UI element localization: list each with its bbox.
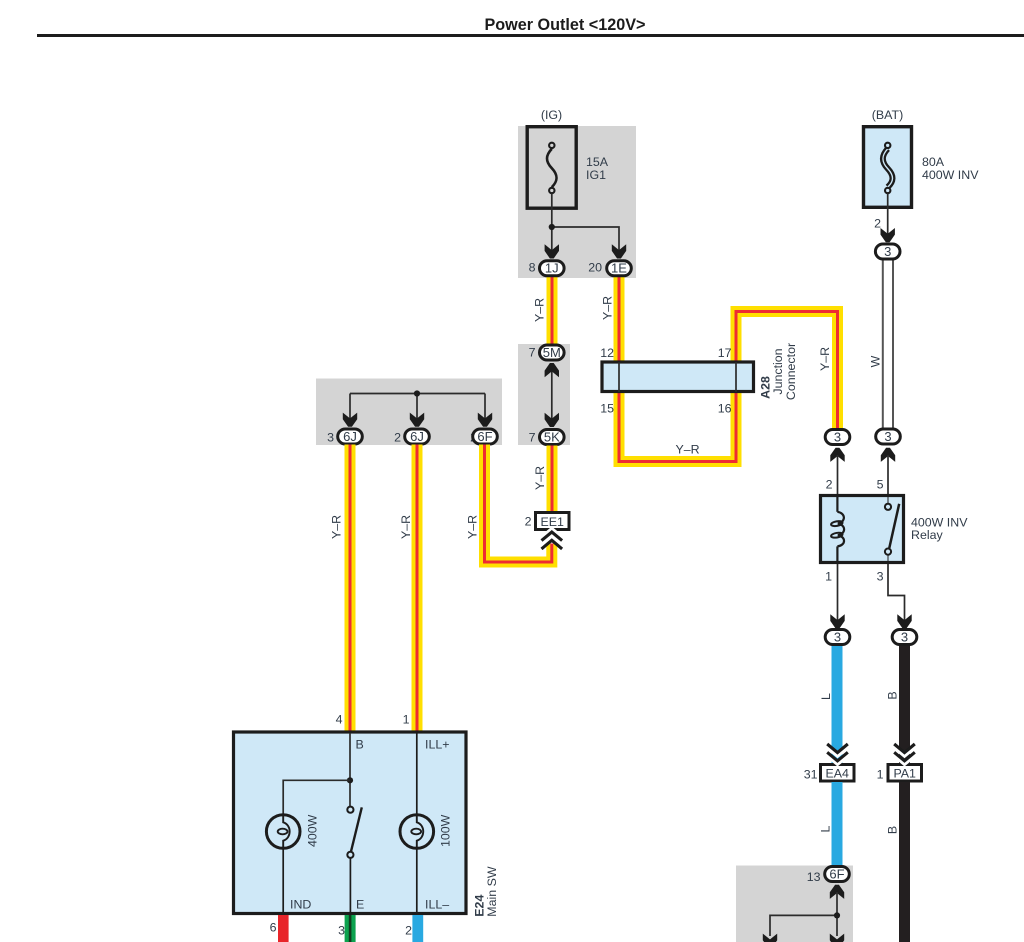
svg-text:7: 7	[529, 431, 536, 445]
connector 3 (lower left)	[825, 630, 850, 645]
svg-text:3: 3	[884, 244, 891, 259]
wire lead branch to lamp 400W	[283, 780, 350, 815]
svg-text:2: 2	[874, 217, 881, 231]
svg-text:1J: 1J	[545, 261, 559, 276]
node junction dot in 6J shield	[414, 390, 420, 396]
connector 6F	[473, 429, 498, 444]
wire R (red) from IND	[278, 915, 289, 942]
svg-text:12: 12	[600, 346, 614, 360]
connector 1J	[540, 261, 565, 276]
svg-text:2: 2	[405, 924, 412, 938]
svg-text:Y–R: Y–R	[533, 298, 547, 322]
chevrons above PA1 (down)	[894, 744, 915, 764]
svg-text:15: 15	[600, 402, 614, 416]
wire Y-R from 6J left to E24 pin 4	[345, 445, 356, 731]
fuse 15A IG1 element	[547, 143, 557, 194]
svg-text:400W: 400W	[306, 814, 320, 847]
wire Y-R horizontal line in 6J shield	[350, 394, 485, 421]
svg-text:W: W	[869, 355, 883, 367]
svg-text:EA4: EA4	[825, 767, 849, 781]
junction connector A28	[602, 362, 754, 392]
svg-text:2: 2	[826, 478, 833, 492]
connector 6F (bottom)	[825, 867, 850, 882]
wire lead 3 to relay pin 5	[887, 455, 889, 494]
svg-text:6J: 6J	[343, 429, 357, 444]
chevrons below EE1 (up)	[542, 529, 563, 546]
svg-text:8: 8	[529, 261, 536, 275]
component E24 Main SW box	[234, 732, 467, 914]
wire W (white) from 3 to relay 3	[882, 260, 894, 429]
svg-text:3: 3	[327, 431, 334, 445]
connector 6J left	[338, 429, 363, 444]
connector 1E	[607, 261, 632, 276]
connector EA4	[821, 765, 855, 782]
relay coil	[831, 494, 844, 564]
wire Y-R from A28 pin 17 to relay column	[736, 312, 838, 429]
node junction dot below IG fuse	[549, 224, 555, 230]
svg-text:17: 17	[718, 346, 732, 360]
svg-text:B: B	[886, 826, 900, 834]
svg-text:Main SW: Main SW	[485, 866, 499, 917]
arrow into 3 (BAT)	[881, 228, 895, 242]
fuse 15A IG1 box	[527, 127, 576, 209]
arrow into 5M (up)	[545, 363, 559, 377]
svg-text:ILL+: ILL+	[425, 738, 449, 752]
arrow down (left branch, clipped)	[763, 934, 777, 942]
svg-text:16: 16	[718, 402, 732, 416]
node junction dot (6F branch)	[834, 912, 840, 918]
svg-text:3: 3	[834, 629, 841, 644]
arrow into 3 (relay switch feed, up)	[881, 448, 895, 462]
switch E24	[347, 807, 362, 913]
lamp 100W	[400, 733, 434, 913]
svg-text:3: 3	[884, 429, 891, 444]
wire L (blue) from ILL-	[412, 915, 423, 942]
svg-text:3: 3	[877, 570, 884, 584]
wire lead fuse to junction	[552, 194, 619, 253]
svg-text:Power Outlet <120V>: Power Outlet <120V>	[484, 16, 645, 34]
svg-text:Y–R: Y–R	[399, 515, 413, 539]
svg-text:EE1: EE1	[540, 515, 564, 529]
svg-text:5K: 5K	[544, 429, 560, 444]
lamp 400W	[266, 815, 300, 913]
wire Y-R loop pins 15-16 of A28	[619, 392, 736, 462]
connector 3 below BAT fuse	[875, 244, 900, 259]
wire B (black) from 3 to PA1	[899, 645, 910, 764]
connector 6J middle	[405, 429, 430, 444]
svg-text:B: B	[356, 738, 364, 752]
svg-text:6: 6	[270, 921, 277, 935]
svg-text:400W INV: 400W INV	[922, 168, 979, 182]
svg-text:3: 3	[901, 629, 908, 644]
connector EE1	[536, 513, 570, 530]
relay switch	[885, 494, 899, 564]
wire lead fuse to arrow	[887, 194, 889, 237]
svg-text:Y–R: Y–R	[533, 466, 547, 490]
arrow into 6F	[478, 413, 492, 427]
node junction dot (B branch)	[347, 777, 353, 783]
svg-text:3: 3	[338, 924, 345, 938]
svg-text:L: L	[818, 825, 832, 832]
shield: 5M/5K connector area	[518, 344, 570, 445]
arrow into 5K (down)	[545, 413, 559, 427]
title rule	[37, 34, 1024, 37]
svg-text:3: 3	[834, 429, 841, 444]
svg-text:6F: 6F	[829, 866, 844, 881]
arrow into lower 3 (right)	[897, 614, 911, 628]
svg-text:5M: 5M	[543, 345, 561, 360]
connector 5M	[540, 345, 565, 360]
wire lead B to switch	[349, 733, 351, 807]
svg-text:PA1: PA1	[893, 767, 916, 781]
svg-text:1E: 1E	[611, 261, 627, 276]
svg-text:Y–R: Y–R	[818, 347, 832, 371]
svg-text:6F: 6F	[477, 429, 492, 444]
svg-text:80A: 80A	[922, 155, 945, 169]
svg-text:Junction: Junction	[771, 348, 785, 394]
wire Y-R from 1E to A28 pin 12	[614, 277, 625, 363]
svg-text:1: 1	[877, 768, 884, 782]
arrow into 6J middle	[410, 413, 424, 427]
svg-text:Y–R: Y–R	[601, 296, 615, 320]
svg-text:6J: 6J	[410, 429, 424, 444]
arrow into 1J	[545, 244, 559, 258]
arrow into 3 (relay coil feed, up)	[830, 448, 844, 462]
shield: 6F bottom connector area	[736, 866, 853, 942]
svg-text:15A: 15A	[586, 155, 609, 169]
connector 3 (coil feed)	[825, 430, 850, 445]
wire L (blue) from 3 to EA4	[832, 645, 843, 764]
svg-text:(IG): (IG)	[541, 108, 562, 122]
wire Y-R from EE1 down-left-up to 6F	[485, 445, 552, 563]
svg-text:4: 4	[336, 713, 343, 727]
svg-text:Y–R: Y–R	[465, 515, 479, 539]
wire lead relay pin 1 down	[837, 564, 839, 622]
connector PA1	[888, 765, 922, 782]
svg-text:2: 2	[525, 515, 532, 529]
svg-text:Relay: Relay	[911, 528, 943, 542]
connector 5K	[540, 430, 565, 445]
svg-text:(BAT): (BAT)	[872, 108, 903, 122]
relay 400W INV box	[821, 496, 904, 563]
svg-text:2: 2	[394, 431, 401, 445]
svg-text:ILL–: ILL–	[425, 898, 449, 912]
wire Y-R from 6J middle to E24 pin 1	[412, 445, 423, 731]
wire link 5M to 5K	[551, 370, 553, 420]
arrow into lower 3 (left)	[830, 614, 844, 628]
svg-text:E: E	[356, 898, 364, 912]
svg-text:L: L	[819, 693, 833, 700]
svg-text:13: 13	[807, 870, 821, 884]
wire lead 3 to relay pin 2	[837, 455, 839, 494]
svg-text:1: 1	[825, 570, 832, 584]
wire B (black) from PA1 to bottom	[899, 782, 910, 942]
svg-text:IG1: IG1	[586, 168, 606, 182]
wire lead 6F branch	[770, 892, 837, 936]
svg-text:Y–R: Y–R	[330, 515, 344, 539]
fusible link 80A 400W INV box	[864, 127, 912, 208]
arrow into 6J left	[343, 413, 357, 427]
svg-text:20: 20	[588, 261, 602, 275]
svg-text:7: 7	[529, 346, 536, 360]
shield: 6J/6J/6F connector area	[316, 379, 502, 446]
connector 3 (lower right)	[892, 630, 917, 645]
svg-text:5: 5	[877, 478, 884, 492]
svg-text:100W: 100W	[438, 814, 452, 847]
shield: IG fuse area	[518, 126, 636, 278]
svg-text:B: B	[886, 691, 900, 699]
wire G (green) from E	[345, 915, 356, 942]
wire lead relay pin 3 down with jog	[888, 564, 905, 622]
fusible link element	[883, 143, 893, 194]
svg-text:Y–R: Y–R	[675, 443, 699, 457]
svg-text:31: 31	[804, 768, 818, 782]
wire Y-R from 1J to 5M	[547, 277, 558, 345]
chevrons above EA4 (down)	[827, 744, 848, 764]
svg-text:IND: IND	[290, 898, 311, 912]
arrow into 1E	[612, 244, 626, 258]
wire L (blue) from EA4 to 6F	[832, 782, 843, 866]
connector 3 (switch feed)	[876, 429, 901, 444]
wire through A28 pin 17-16	[735, 362, 737, 392]
arrow into 6F (up)	[830, 885, 844, 899]
wire Y-R from 5K to EE1	[547, 446, 558, 512]
svg-text:Connector: Connector	[784, 343, 798, 400]
arrow down (right branch, clipped)	[830, 934, 844, 942]
svg-text:1: 1	[403, 713, 410, 727]
wire through A28 pin 12-15	[618, 362, 620, 392]
